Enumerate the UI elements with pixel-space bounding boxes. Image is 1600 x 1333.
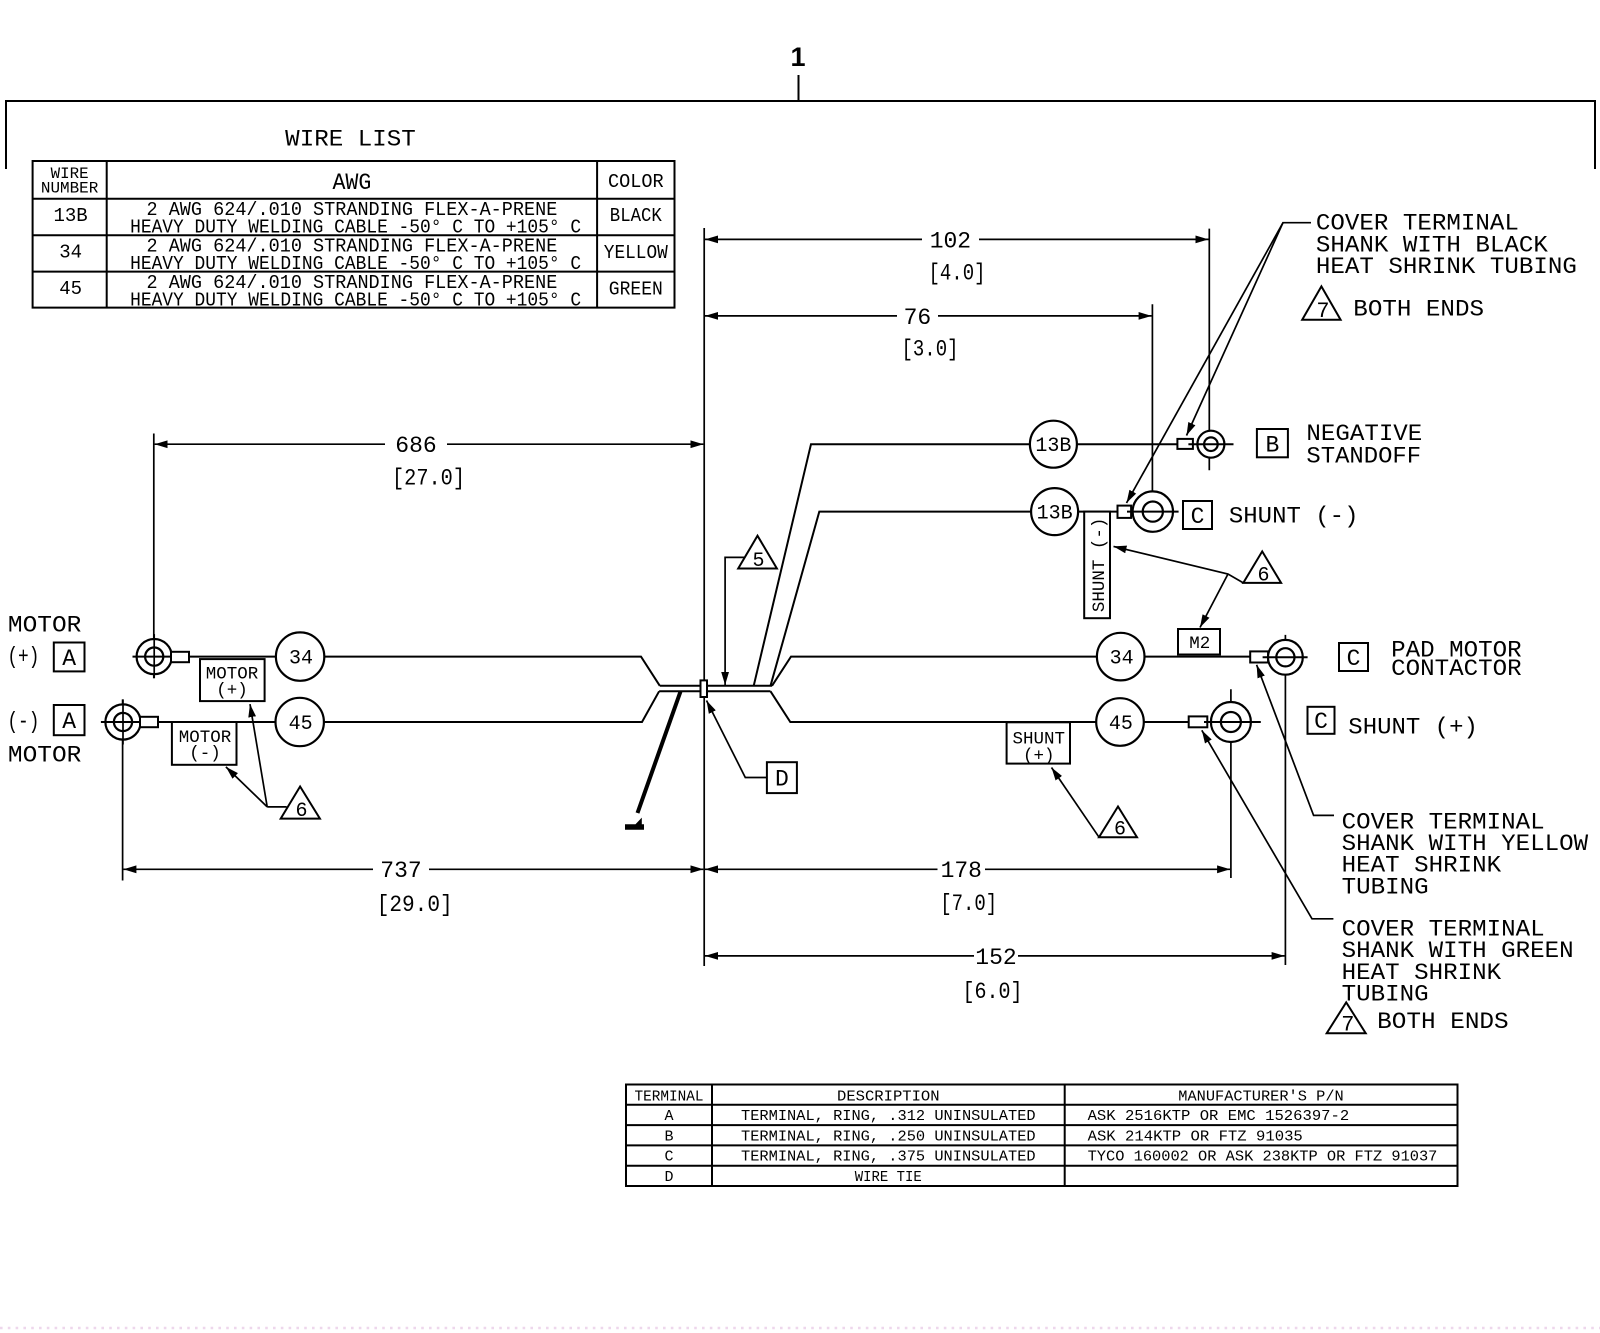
terminal C ring shunt plus (1211, 702, 1251, 742)
extension line 102 right (1208, 229, 1210, 471)
leader from triangle 5 to bundle (725, 557, 744, 685)
SECTION: rightside (1007, 421, 1522, 842)
terminal A motor plus ring (137, 639, 172, 674)
SECTION: harness (7, 444, 1250, 830)
svg-text:[7.0]: [7.0] (940, 891, 997, 917)
MOTOR (+) callout box (200, 659, 265, 701)
SHUNT (-) sleeve box vertical (1084, 512, 1110, 619)
harness bundle (659, 686, 772, 692)
svg-text:(+): (+) (1023, 747, 1055, 767)
wire tie D (701, 680, 708, 697)
terminal flag C box shunt minus (1183, 501, 1212, 529)
svg-text:(-): (-) (189, 744, 221, 764)
dim 152 line (705, 955, 974, 957)
svg-text:B: B (1265, 432, 1279, 458)
svg-text:13B: 13B (53, 205, 87, 227)
SECTION: notes (1127, 210, 1589, 1037)
svg-text:1: 1 (790, 42, 805, 72)
svg-text:TYCO 160002 OR ASK 238KTP OR F: TYCO 160002 OR ASK 238KTP OR FTZ 91037 (1088, 1149, 1438, 1166)
wire 34 right segment (772, 657, 1250, 686)
svg-text:BOTH ENDS: BOTH ENDS (1353, 297, 1484, 323)
svg-text:7: 7 (1341, 1013, 1354, 1038)
svg-text:152: 152 (975, 945, 1016, 971)
svg-text:(+): (+) (216, 681, 248, 701)
wire number circle 45 left (276, 698, 324, 746)
terminal C ring shunt minus (1133, 491, 1173, 531)
flag note triangle 6 right (1243, 551, 1281, 583)
dim 686 line (155, 443, 385, 445)
svg-text:45: 45 (59, 278, 82, 300)
SECTION: dimensions (123, 228, 1286, 1005)
svg-text:M2: M2 (1189, 634, 1210, 654)
svg-text:YELLOW: YELLOW (604, 242, 669, 264)
svg-text:MOTOR: MOTOR (8, 742, 82, 768)
terminal table grid (626, 1085, 1458, 1187)
svg-text:5: 5 (752, 550, 764, 573)
dim 102 line (705, 238, 922, 240)
svg-text:686: 686 (395, 433, 436, 459)
svg-text:C: C (1314, 709, 1328, 735)
svg-text:[6.0]: [6.0] (963, 979, 1023, 1005)
terminal C shunt minus shank (1118, 506, 1132, 518)
leader from D box to wire tie (707, 701, 767, 778)
SECTION: termtable (626, 1085, 1458, 1187)
leader black note to terminal B (1187, 223, 1312, 436)
leader triangle 6 to shunt sleeve (1114, 546, 1244, 583)
wire number circle 34 left (276, 632, 324, 680)
svg-text:WIRE TIE: WIRE TIE (855, 1169, 922, 1186)
border top rail (6, 101, 1595, 169)
svg-text:TERMINAL, RING, .250 UNINSULAT: TERMINAL, RING, .250 UNINSULATED (741, 1128, 1036, 1145)
svg-text:TERMINAL, RING, .375 UNINSULAT: TERMINAL, RING, .375 UNINSULATED (741, 1149, 1036, 1166)
wire 45 left segment (158, 691, 660, 722)
wire 13B shunt riser (771, 512, 1118, 686)
svg-text:WIRE LIST: WIRE LIST (285, 127, 416, 153)
svg-text:HEAT SHRINK TUBING: HEAT SHRINK TUBING (1316, 254, 1577, 280)
svg-text:13B: 13B (1037, 502, 1073, 525)
flag note triangle 5 (738, 536, 777, 569)
wire list table grid (33, 161, 675, 308)
terminal A motor minus ring (105, 704, 140, 739)
extension line 686 left / motor plus centerline (153, 434, 155, 679)
wire 13B negative standoff riser (754, 444, 1178, 686)
flag note triangle 7 top (1302, 286, 1340, 319)
terminal flag B box (1257, 429, 1288, 457)
terminal A motor minus shank (140, 717, 158, 727)
detail flag D box (767, 762, 797, 793)
svg-text:C: C (664, 1149, 673, 1166)
svg-text:D: D (664, 1169, 673, 1186)
wire number circle 13B lower (1031, 488, 1078, 535)
wire number circle 34 right (1097, 633, 1145, 681)
flag note triangle 6 left (267, 806, 287, 808)
terminal flag A (plus) (54, 643, 85, 672)
terminal flag C box shunt plus (1308, 707, 1335, 734)
svg-text:TUBING: TUBING (1342, 982, 1429, 1008)
svg-text:COLOR: COLOR (608, 171, 664, 193)
svg-text:BOTH ENDS: BOTH ENDS (1377, 1009, 1509, 1035)
svg-text:TUBING: TUBING (1342, 874, 1429, 900)
svg-text:6: 6 (1114, 819, 1126, 842)
svg-text:76: 76 (904, 305, 932, 331)
svg-text:AWG: AWG (332, 170, 371, 196)
leader triangle 6 to M2 (1200, 574, 1228, 628)
svg-text:[27.0]: [27.0] (392, 466, 465, 492)
svg-text:45: 45 (289, 713, 313, 736)
svg-text:D: D (775, 767, 789, 793)
terminal C ring pad motor contactor (1268, 640, 1303, 675)
svg-text:STANDOFF: STANDOFF (1306, 443, 1421, 469)
balloon leader tick for zone 1 (798, 75, 800, 101)
wire number circle 13B upper (1030, 421, 1077, 468)
dim 178 line (705, 868, 938, 870)
svg-text:HEAVY DUTY WELDING CABLE -50°: HEAVY DUTY WELDING CABLE -50° C TO +105°… (130, 289, 581, 311)
terminal B shank (1177, 439, 1193, 449)
terminal flag C box pad motor (1339, 643, 1368, 671)
terminal C shunt plus shank (1189, 716, 1208, 727)
wire number circle 45 right (1096, 698, 1144, 746)
svg-text:A: A (62, 709, 76, 735)
wire 45 right segment (771, 691, 1189, 722)
svg-text:[29.0]: [29.0] (377, 892, 453, 918)
svg-text:6: 6 (1257, 564, 1269, 587)
dim 76 line (705, 315, 897, 317)
svg-text:NUMBER: NUMBER (41, 180, 99, 198)
svg-text:GREEN: GREEN (609, 279, 663, 301)
svg-text:34: 34 (59, 242, 82, 264)
svg-text:TERMINAL: TERMINAL (635, 1088, 704, 1105)
svg-text:[3.0]: [3.0] (902, 336, 959, 362)
dim 737 line (123, 868, 373, 870)
svg-text:ASK 214KTP OR FTZ 91035: ASK 214KTP OR FTZ 91035 (1088, 1128, 1303, 1145)
leader black note to terminal shunt minus (1127, 223, 1284, 503)
svg-text:B: B (664, 1128, 673, 1145)
svg-text:A: A (62, 646, 76, 672)
svg-text:SHUNT (-): SHUNT (-) (1090, 518, 1110, 613)
svg-text:178: 178 (941, 858, 982, 884)
wire 34 left segment (189, 657, 660, 686)
svg-text:13B: 13B (1035, 435, 1071, 458)
svg-text:45: 45 (1109, 713, 1133, 736)
section cut line (638, 692, 681, 814)
svg-text:A: A (664, 1108, 673, 1125)
SECTION: frame (6, 42, 1595, 169)
svg-text:7: 7 (1316, 299, 1329, 324)
svg-text:CONTACTOR: CONTACTOR (1391, 656, 1522, 682)
extension line 76 right (1151, 304, 1153, 531)
svg-text:BLACK: BLACK (610, 205, 663, 227)
flag note triangle 7 bottom (1327, 1002, 1366, 1033)
terminal A motor plus shank (171, 652, 189, 662)
svg-text:ASK 2516KTP OR EMC 1526397-2: ASK 2516KTP OR EMC 1526397-2 (1088, 1108, 1350, 1125)
svg-text:34: 34 (1110, 647, 1134, 670)
extension line 737 left / motor minus centerline (122, 699, 124, 880)
flag note triangle 6 bottom (1099, 807, 1137, 838)
svg-text:(+): (+) (7, 644, 39, 670)
svg-text:SHUNT (-): SHUNT (-) (1229, 504, 1359, 530)
section label 1 rotated (625, 818, 644, 830)
MOTOR (-) callout box (172, 722, 237, 765)
SHUNT (+) sleeve box (1007, 722, 1070, 763)
svg-text:MOTOR: MOTOR (8, 613, 82, 639)
leader yellow note to pad motor shank (1257, 665, 1334, 816)
leader green note to shunt plus shank (1202, 730, 1334, 919)
leader to MOTOR (+) box (250, 704, 267, 807)
svg-text:(-): (-) (7, 709, 39, 735)
SECTION: wirelist (33, 127, 675, 312)
svg-text:C: C (1191, 504, 1205, 530)
svg-text:6: 6 (295, 800, 307, 823)
leader triangle 6 to SHUNT (+) sleeve (1052, 768, 1100, 838)
svg-text:TERMINAL, RING, .312 UNINSULAT: TERMINAL, RING, .312 UNINSULATED (741, 1108, 1036, 1125)
extension line common at wire tie (703, 228, 705, 966)
svg-text:DESCRIPTION: DESCRIPTION (837, 1088, 940, 1105)
extension line 152 right (1284, 635, 1286, 965)
svg-text:C: C (1347, 646, 1361, 672)
leader to MOTOR (-) box (226, 767, 267, 807)
terminal B ring negative standoff (1197, 431, 1224, 458)
pink page boundary (0, 1327, 1600, 1329)
svg-text:34: 34 (289, 647, 313, 670)
svg-text:SHUNT (+): SHUNT (+) (1348, 715, 1478, 741)
svg-text:[4.0]: [4.0] (929, 261, 986, 287)
extension line 178 right (1230, 689, 1232, 878)
svg-text:102: 102 (930, 228, 971, 254)
svg-text:MANUFACTURER'S P/N: MANUFACTURER'S P/N (1178, 1088, 1343, 1105)
M2 marker box (1178, 629, 1220, 655)
terminal C pad motor shank (1250, 651, 1268, 662)
svg-text:737: 737 (380, 858, 421, 884)
